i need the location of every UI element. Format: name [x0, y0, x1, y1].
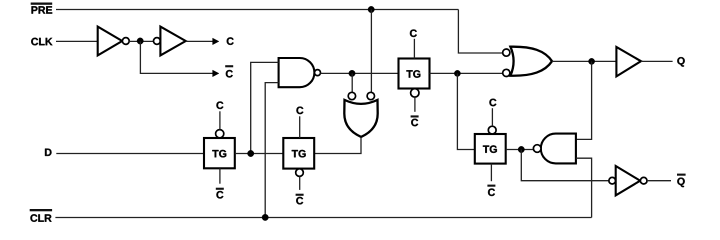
net C-bar label	[225, 65, 233, 77]
wire TG1 bottom control	[219, 168, 221, 183]
wire junction down to TG4 input	[457, 73, 474, 149]
label C above TG1	[216, 102, 223, 110]
transmission gate TG2	[283, 138, 314, 176]
transmission gate TG3	[399, 59, 430, 98]
label C above TG3	[410, 30, 417, 38]
junction D path node	[248, 150, 254, 156]
inverter U1	[98, 27, 130, 56]
wire U2 output to C arrow	[186, 40, 213, 42]
net Q label	[677, 57, 684, 66]
label C-bar below TG2	[296, 194, 304, 205]
wire U1 output node	[129, 40, 153, 42]
transmission gate TG4	[475, 126, 506, 163]
wire PRE down to NOR U5 input 1	[458, 10, 502, 54]
arrow C-bar	[213, 70, 219, 77]
wire control C to TG3	[413, 39, 415, 59]
transmission gate TG1	[204, 130, 235, 169]
wire TG1 to TG2	[235, 153, 283, 155]
wire Q node down to NAND U7 input 1	[576, 61, 592, 139]
wire TG3 bottom bubble control	[414, 97, 416, 112]
nand gate U7 facing left	[533, 134, 576, 164]
wire control C to TG2	[299, 116, 301, 138]
buffer U6	[616, 47, 641, 76]
wire PRE junction down to NOR U4 input B	[370, 10, 372, 93]
arrow C	[213, 38, 219, 45]
junction CLR line	[262, 214, 268, 220]
wire PRE horizontal	[56, 9, 458, 11]
wire TG3 output to NOR U5 input 2	[430, 72, 503, 74]
wire TG2 bottom bubble control	[299, 176, 301, 190]
label C-bar below TG4	[487, 185, 495, 196]
wire U5 output to buffer U6	[552, 60, 616, 62]
NOR gate U5	[503, 47, 552, 77]
nand gate U3	[279, 58, 321, 87]
wire control C to TG1 bubble	[219, 111, 221, 129]
NOR gate U4 pointing down	[344, 92, 377, 137]
junction on PRE line	[368, 6, 374, 12]
label C above TG2	[296, 107, 303, 115]
wire CLK to inverter U1	[56, 40, 98, 42]
net C label	[227, 37, 234, 45]
label C-bar below TG1	[216, 188, 224, 199]
wire TG4 bottom control	[490, 164, 492, 182]
wire junction down to NOR U4 input A	[351, 73, 353, 92]
wire node to C-bar arrow	[140, 41, 213, 73]
net Q-bar label	[677, 174, 686, 187]
wire control C to TG4 bubble	[491, 108, 493, 126]
junction buffered clock node	[137, 38, 143, 44]
junction Q-bar internal node	[518, 146, 524, 152]
wire U3 input 1 from D node	[251, 62, 279, 153]
wire U3 output to TG3	[321, 72, 399, 74]
wire U4 output down to TG2 output node	[314, 137, 361, 153]
net PRE label	[31, 3, 53, 14]
label C above TG4	[489, 99, 496, 107]
inverter U2	[154, 27, 186, 56]
wire Q-bar node down to inverter U8	[521, 150, 609, 181]
net CLK label	[31, 38, 52, 46]
net D label	[45, 149, 52, 156]
junction TG3 output node	[454, 70, 460, 76]
label C-bar below TG3	[411, 115, 419, 126]
wire U6 output to Q	[641, 60, 673, 62]
wire U7 input 2 to CLR line	[576, 158, 592, 217]
inverter U8	[609, 166, 647, 195]
wire TG4 output to U7 output node	[506, 149, 534, 151]
net CLR label	[30, 209, 52, 222]
wire CLR horizontal	[55, 217, 591, 219]
wire D to TG1	[56, 153, 204, 155]
junction Q node	[589, 58, 595, 64]
wire U8 output to Q-bar	[647, 180, 671, 182]
junction U3 output node	[349, 70, 355, 76]
wire U3 input 2 from CLR line	[265, 83, 278, 218]
